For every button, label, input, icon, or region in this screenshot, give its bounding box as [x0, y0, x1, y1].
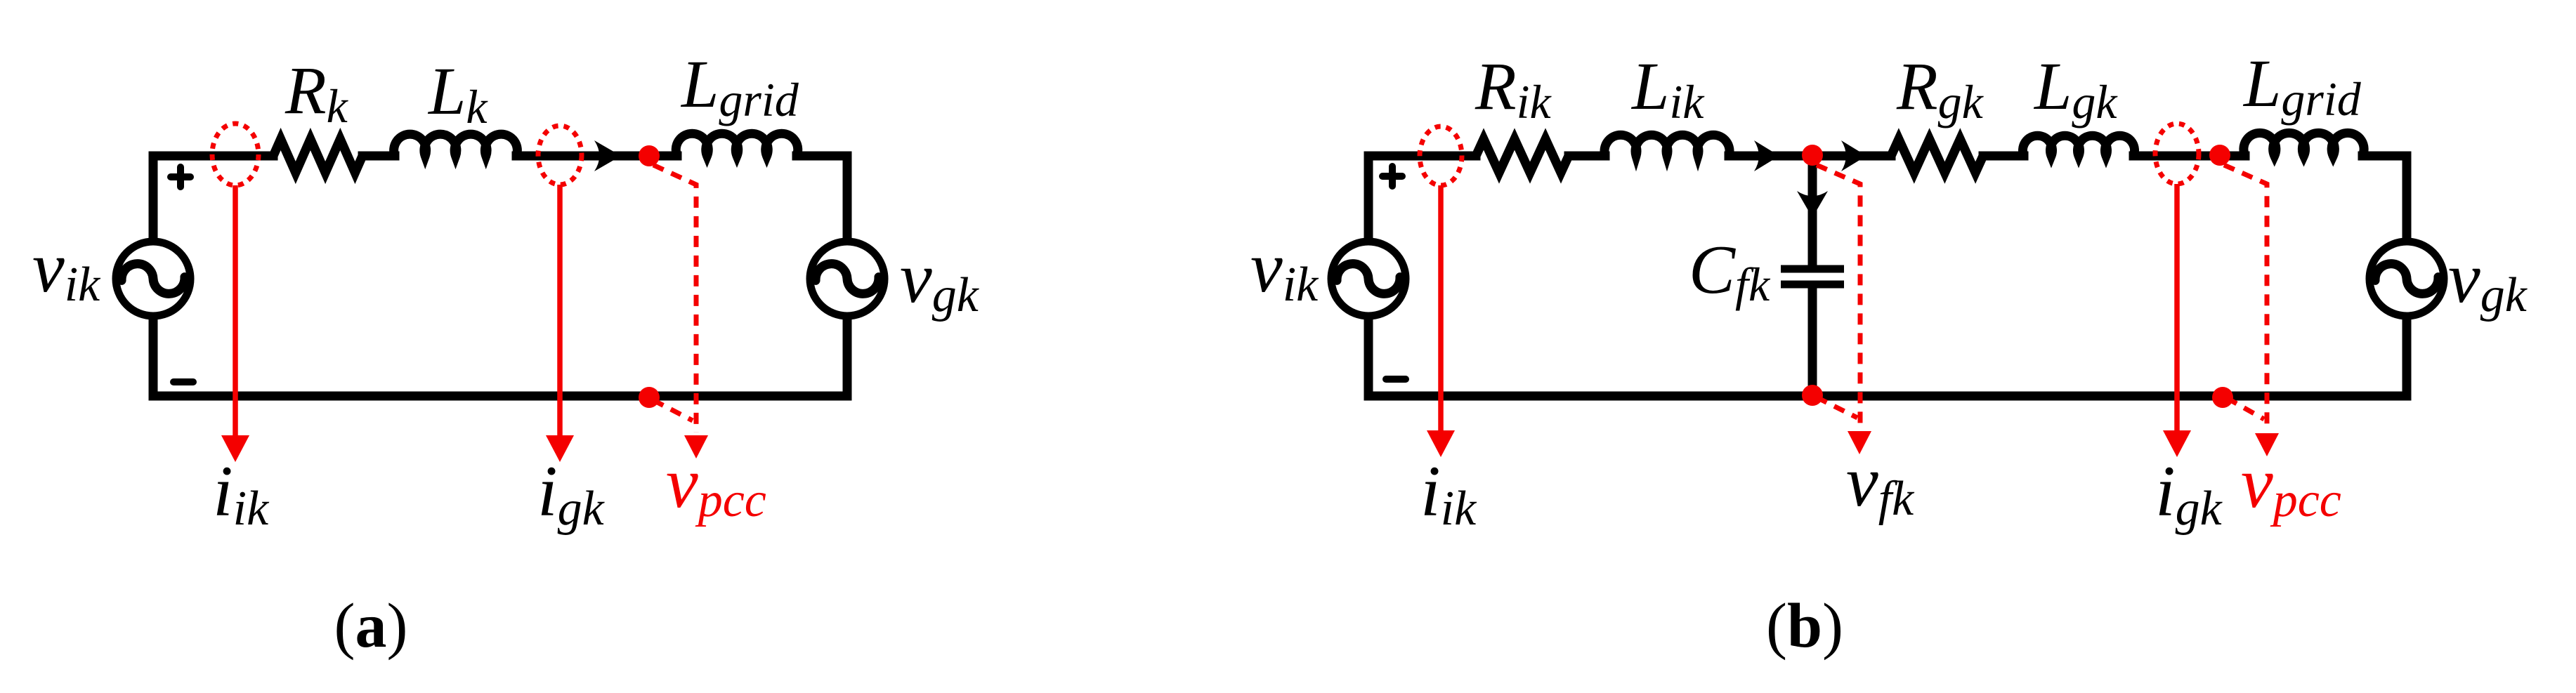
svg-text:Rgk: Rgk [1896, 48, 1985, 128]
svg-text:igk: igk [2155, 451, 2223, 536]
svg-text:vgk: vgk [2448, 238, 2528, 322]
svg-text:vpcc: vpcc [2241, 443, 2341, 527]
svg-text:Lgrid: Lgrid [2242, 46, 2362, 126]
svg-text:vik: vik [32, 227, 101, 312]
svg-text:vpcc: vpcc [666, 443, 766, 527]
svg-text:Cfk: Cfk [1689, 232, 1771, 311]
svg-text:vfk: vfk [1846, 442, 1915, 526]
svg-text:Rk: Rk [285, 53, 349, 133]
svg-text:iik: iik [1420, 451, 1477, 536]
svg-text:vgk: vgk [900, 238, 980, 322]
svg-text:Rik: Rik [1475, 48, 1552, 128]
svg-text:(b): (b) [1766, 591, 1843, 661]
svg-text:vik: vik [1250, 227, 1319, 312]
svg-text:igk: igk [537, 451, 606, 536]
svg-text:Lik: Lik [1630, 48, 1705, 128]
svg-text:(a): (a) [334, 591, 408, 661]
svg-text:Lk: Lk [427, 53, 488, 133]
svg-text:Lgrid: Lgrid [680, 46, 799, 126]
svg-text:Lgk: Lgk [2033, 48, 2118, 128]
svg-text:iik: iik [213, 451, 270, 536]
